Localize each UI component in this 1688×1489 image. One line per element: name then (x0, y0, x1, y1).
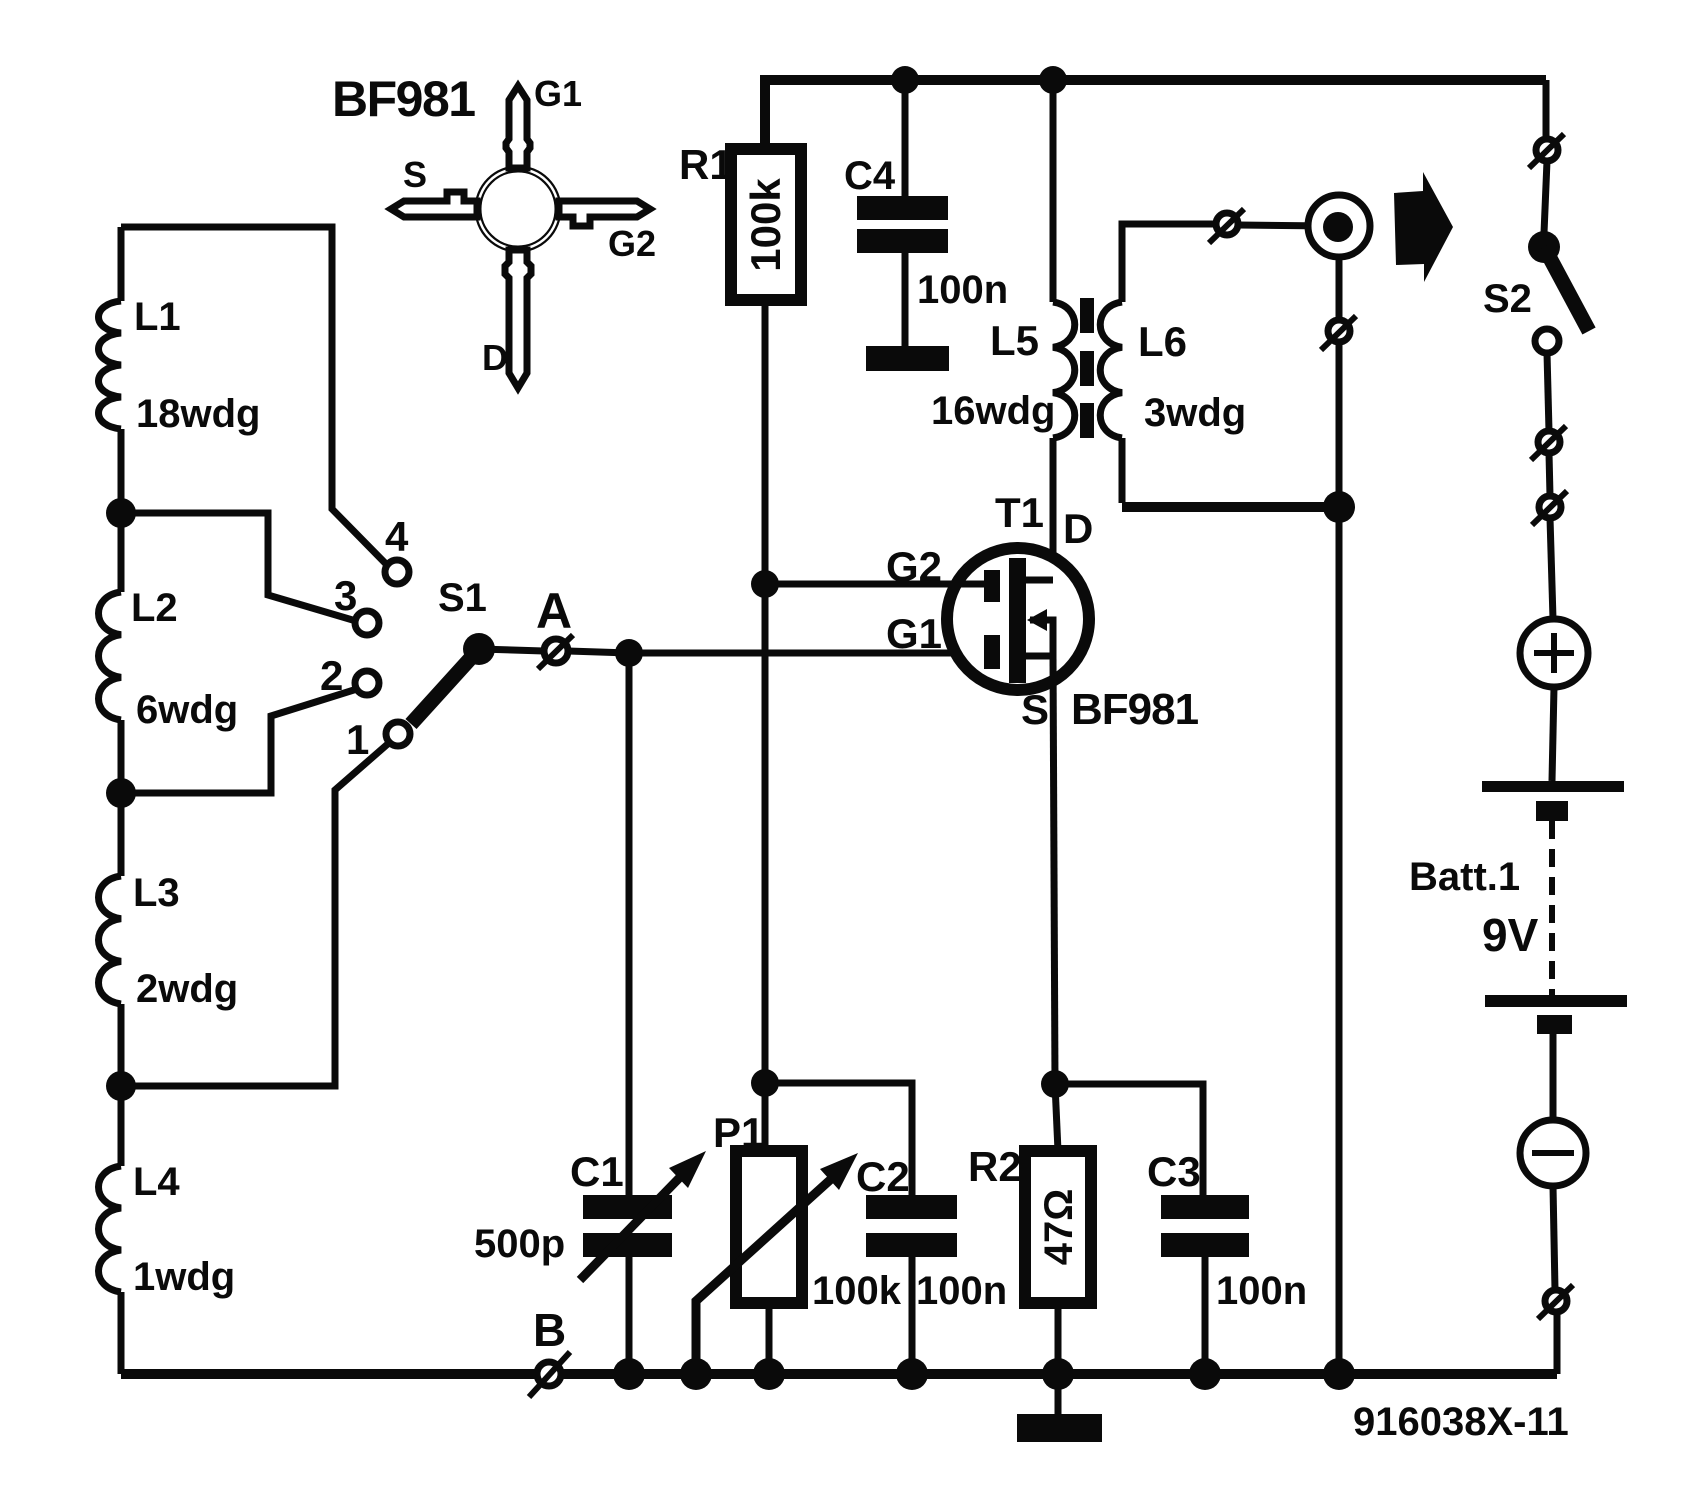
svg-text:G1: G1 (886, 610, 942, 657)
svg-text:D: D (482, 337, 508, 378)
svg-text:47Ω: 47Ω (1037, 1189, 1081, 1266)
svg-text:16wdg: 16wdg (931, 389, 1055, 433)
svg-text:500p: 500p (474, 1222, 565, 1266)
svg-text:L6: L6 (1138, 318, 1187, 365)
svg-text:18wdg: 18wdg (136, 392, 260, 436)
svg-text:T1: T1 (995, 489, 1044, 536)
svg-text:C1: C1 (570, 1148, 624, 1195)
svg-text:6wdg: 6wdg (136, 688, 238, 732)
svg-text:3: 3 (334, 572, 357, 619)
svg-text:R2: R2 (968, 1143, 1022, 1190)
svg-text:C4: C4 (844, 154, 896, 198)
svg-text:D: D (1063, 505, 1093, 552)
svg-text:Batt.1: Batt.1 (1409, 855, 1520, 899)
svg-text:P1: P1 (713, 1109, 764, 1156)
svg-text:L5: L5 (990, 317, 1039, 364)
svg-text:916038X-11: 916038X-11 (1353, 1400, 1569, 1444)
svg-text:100k: 100k (742, 178, 789, 272)
svg-text:A: A (536, 583, 572, 639)
svg-text:G1: G1 (534, 73, 582, 114)
svg-text:100n: 100n (916, 1269, 1007, 1313)
svg-text:C3: C3 (1147, 1148, 1201, 1195)
svg-text:C2: C2 (856, 1153, 910, 1200)
svg-text:100n: 100n (917, 268, 1008, 312)
svg-text:R1: R1 (679, 141, 733, 188)
svg-text:G2: G2 (608, 223, 656, 264)
svg-text:2wdg: 2wdg (136, 967, 238, 1011)
svg-text:1: 1 (346, 716, 369, 763)
svg-text:L2: L2 (131, 586, 178, 630)
svg-text:100k: 100k (812, 1269, 902, 1313)
svg-text:BF981: BF981 (1071, 685, 1199, 734)
svg-text:3wdg: 3wdg (1144, 391, 1246, 435)
svg-text:B: B (533, 1304, 566, 1356)
svg-text:S1: S1 (438, 576, 487, 620)
svg-text:BF981: BF981 (332, 71, 475, 127)
svg-text:S: S (403, 154, 427, 195)
svg-text:L1: L1 (134, 295, 181, 339)
svg-text:4: 4 (385, 513, 409, 560)
svg-text:100n: 100n (1216, 1269, 1307, 1313)
svg-text:2: 2 (320, 652, 343, 699)
svg-text:S: S (1021, 686, 1049, 733)
svg-text:1wdg: 1wdg (133, 1255, 235, 1299)
svg-text:S2: S2 (1483, 277, 1532, 321)
svg-text:9V: 9V (1482, 909, 1539, 961)
svg-text:L4: L4 (133, 1160, 180, 1204)
svg-text:G2: G2 (886, 543, 942, 590)
svg-text:L3: L3 (133, 871, 180, 915)
